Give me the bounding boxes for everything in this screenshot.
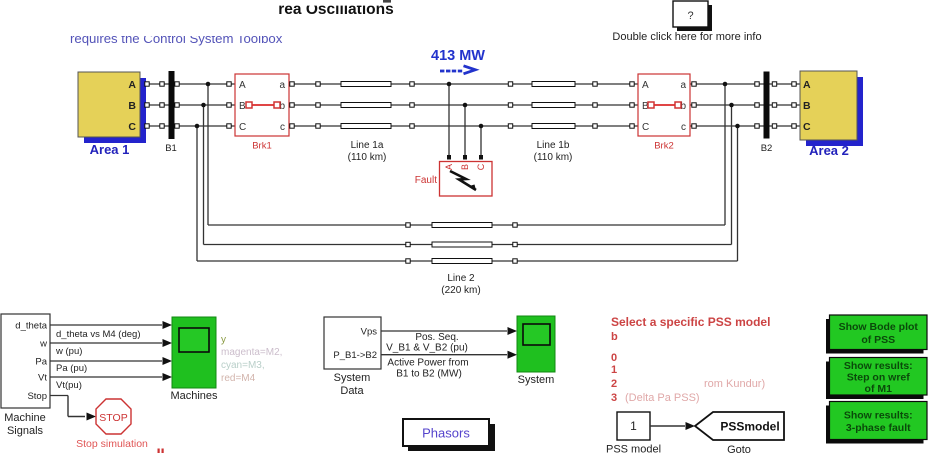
svg-text:B: B <box>803 100 811 112</box>
svg-text:Area 1: Area 1 <box>90 142 130 157</box>
svg-text:Pos. Seq.: Pos. Seq. <box>415 332 458 343</box>
svg-text:Vt(pu): Vt(pu) <box>56 380 82 391</box>
svg-text:413 MW: 413 MW <box>431 48 485 64</box>
svg-text:Line 1b: Line 1b <box>537 140 570 151</box>
svg-text:y: y <box>221 335 226 346</box>
svg-text:Area 2: Area 2 <box>809 143 849 158</box>
svg-text:magenta=M2,: magenta=M2, <box>221 347 282 358</box>
svg-text:Line 1a: Line 1a <box>351 140 384 151</box>
svg-text:Stop: Stop <box>27 391 47 402</box>
svg-text:Vps: Vps <box>361 327 378 338</box>
svg-text:Select a specific PSS model: Select a specific PSS model <box>611 315 770 329</box>
svg-text:Show Bode plot: Show Bode plot <box>839 321 919 333</box>
svg-text:B2: B2 <box>761 143 773 154</box>
svg-text:(Delta Pa PSS): (Delta Pa PSS) <box>625 392 700 404</box>
svg-text:B: B <box>460 164 470 170</box>
svg-text:Machines: Machines <box>170 390 218 402</box>
svg-text:PSS model: PSS model <box>606 444 661 453</box>
svg-text:System: System <box>334 372 371 384</box>
svg-text:w: w <box>39 339 47 350</box>
svg-text:PSSmodel: PSSmodel <box>720 420 779 434</box>
svg-text:Vt: Vt <box>38 373 47 384</box>
svg-text:rom Kundur): rom Kundur) <box>704 378 765 390</box>
svg-text:rea Oscillations: rea Oscillations <box>278 1 393 18</box>
svg-text:C: C <box>476 163 486 170</box>
svg-text:of M1: of M1 <box>865 383 893 395</box>
svg-text:A: A <box>128 79 136 91</box>
svg-text:Signals: Signals <box>7 425 44 437</box>
svg-text:A: A <box>444 164 454 170</box>
svg-text:Show results:: Show results: <box>844 360 913 372</box>
svg-text:a: a <box>279 80 285 91</box>
svg-text:C: C <box>128 121 136 133</box>
svg-text:Pa: Pa <box>35 357 47 368</box>
svg-text:A: A <box>642 80 649 91</box>
svg-text:P_B1->B2: P_B1->B2 <box>333 350 377 361</box>
svg-text:Line 2: Line 2 <box>447 273 475 284</box>
svg-text:0: 0 <box>611 352 617 364</box>
svg-text:(110 km): (110 km) <box>348 152 387 163</box>
svg-text:A: A <box>803 79 811 91</box>
svg-text:C: C <box>803 121 811 133</box>
svg-text:of PSS: of PSS <box>861 334 895 346</box>
svg-text:w (pu): w (pu) <box>55 346 82 357</box>
svg-text:d_theta vs M4 (deg): d_theta vs M4 (deg) <box>56 329 141 340</box>
svg-text:Fault: Fault <box>415 175 437 186</box>
svg-text:c: c <box>681 122 686 133</box>
svg-text:?: ? <box>687 10 693 22</box>
svg-text:Active Power from: Active Power from <box>387 358 468 369</box>
svg-text:Data: Data <box>340 385 364 397</box>
svg-text:A: A <box>239 80 246 91</box>
svg-text:Stop simulation: Stop simulation <box>76 438 148 450</box>
svg-text:c: c <box>280 122 285 133</box>
svg-text:1: 1 <box>611 364 617 376</box>
svg-text:Goto: Goto <box>727 444 751 453</box>
svg-text:Show results:: Show results: <box>844 410 913 422</box>
svg-text:cyan=M3,: cyan=M3, <box>221 360 265 371</box>
svg-text:STOP: STOP <box>99 412 127 424</box>
svg-text:requires the Control System To: requires the Control System Toolbox <box>70 31 283 46</box>
svg-text:3: 3 <box>611 392 617 404</box>
svg-text:Brk1: Brk1 <box>252 141 272 152</box>
svg-text:2: 2 <box>611 378 617 390</box>
svg-text:C: C <box>642 122 649 133</box>
svg-text:(110 km): (110 km) <box>534 152 573 163</box>
svg-text:d_theta: d_theta <box>15 321 47 332</box>
svg-text:C: C <box>239 122 246 133</box>
svg-text:B1 to B2 (MW): B1 to B2 (MW) <box>396 369 462 380</box>
svg-text:3-phase fault: 3-phase fault <box>846 422 911 434</box>
svg-text:(220 km): (220 km) <box>441 285 480 296</box>
svg-text:1: 1 <box>630 419 637 433</box>
svg-text:Phasors: Phasors <box>422 426 470 441</box>
svg-text:red=M4: red=M4 <box>221 373 256 384</box>
svg-text:Machine: Machine <box>4 412 46 424</box>
svg-text:B: B <box>128 100 136 112</box>
svg-text:B: B <box>239 101 246 112</box>
svg-text:Pa (pu): Pa (pu) <box>56 363 87 374</box>
svg-text:V_B1 & V_B2 (pu): V_B1 & V_B2 (pu) <box>386 343 468 354</box>
svg-text:Brk2: Brk2 <box>654 141 674 152</box>
svg-text:Double click here for more inf: Double click here for more info <box>612 31 761 43</box>
svg-text:b: b <box>611 331 618 343</box>
svg-text:B1: B1 <box>165 143 177 154</box>
svg-text:System: System <box>518 374 555 386</box>
svg-text:Step on wref: Step on wref <box>847 372 911 384</box>
svg-text:a: a <box>680 80 686 91</box>
